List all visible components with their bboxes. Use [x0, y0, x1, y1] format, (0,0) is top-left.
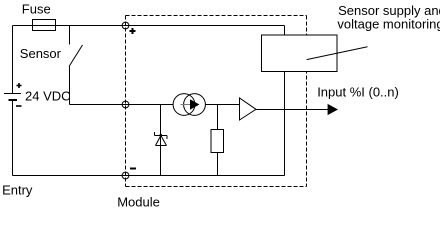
svg-text:24 VDC: 24 VDC — [25, 89, 71, 104]
svg-text:voltage monitoring: voltage monitoring — [337, 17, 440, 32]
svg-text:Entry: Entry — [2, 182, 33, 197]
svg-text:Sensor supply and: Sensor supply and — [338, 3, 440, 18]
svg-text:Fuse: Fuse — [22, 2, 51, 17]
svg-text:Input %I (0..n): Input %I (0..n) — [317, 85, 399, 100]
svg-text:Module: Module — [117, 195, 160, 210]
svg-text:Sensor: Sensor — [20, 46, 62, 61]
